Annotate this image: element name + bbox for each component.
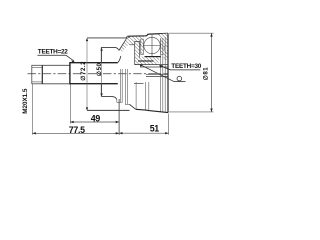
svg-text:TEETH=22: TEETH=22 <box>38 49 68 56</box>
dia 72.2 dimension <box>86 39 88 110</box>
dia 50 dimension <box>101 48 103 96</box>
dimension 51 <box>168 114 170 135</box>
svg-text:M20X1.5: M20X1.5 <box>22 88 29 114</box>
mouth wall hatch wedge (right of ball) <box>160 33 168 50</box>
bottom-back exterior details <box>117 37 165 112</box>
dimension 49 <box>69 85 71 124</box>
ball <box>144 37 160 53</box>
bell right face <box>167 33 169 112</box>
svg-text:77.5: 77.5 <box>69 125 85 135</box>
svg-text:TEETH=30: TEETH=30 <box>171 63 201 70</box>
extension line 77.5 left <box>31 84 33 135</box>
bell top edge <box>129 33 168 36</box>
svg-text:∅72.2: ∅72.2 <box>80 61 87 81</box>
svg-text:49: 49 <box>91 114 101 124</box>
inner bore lines <box>134 65 168 84</box>
backface hatch wedge <box>120 37 129 52</box>
boot land bottom edge <box>87 109 130 111</box>
chamfer and bottom edge <box>130 104 136 109</box>
threaded stub M20X1.5 <box>32 65 43 84</box>
inner race below ball (hatched) <box>138 57 161 65</box>
clamp lip arc <box>126 36 128 38</box>
svg-text:∅81: ∅81 <box>203 67 210 81</box>
thread relief <box>41 65 43 84</box>
groove inner lines <box>130 44 142 46</box>
dia 81 dimension <box>169 32 214 34</box>
spline section TEETH=22 <box>70 62 118 84</box>
cage slivers <box>141 39 144 55</box>
circularity symbol with leader <box>177 76 182 81</box>
centerline <box>28 73 169 75</box>
shaft <box>42 65 70 84</box>
bell backface slope <box>119 38 127 51</box>
svg-text:∅50: ∅50 <box>96 63 103 77</box>
boot seat cylinder <box>101 47 121 99</box>
bell outer wall (hatched band with ball groove) <box>129 33 168 47</box>
inner race left column (hatched) <box>135 42 140 65</box>
boot land top edge <box>87 37 128 39</box>
dimension 77.5 <box>32 132 119 134</box>
svg-text:51: 51 <box>150 123 159 133</box>
